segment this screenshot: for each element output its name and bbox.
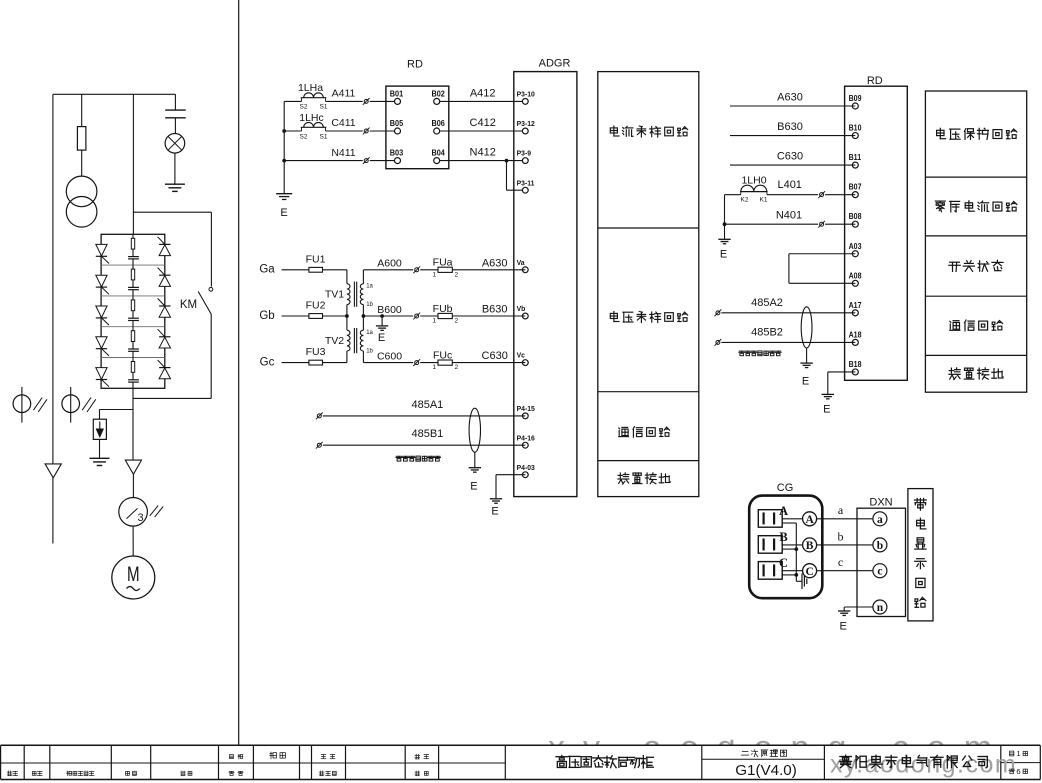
- svg-text:C411: C411: [331, 117, 355, 129]
- svg-text:485B1: 485B1: [411, 428, 443, 440]
- svg-text:E: E: [823, 404, 830, 416]
- svg-text:A630: A630: [482, 257, 508, 269]
- svg-text:E: E: [280, 207, 287, 219]
- svg-text:1: 1: [432, 271, 436, 278]
- svg-text:TV2: TV2: [325, 335, 344, 347]
- svg-text:485B2: 485B2: [751, 326, 783, 338]
- svg-text:Ga: Ga: [259, 264, 275, 276]
- svg-text:1a: 1a: [366, 284, 373, 290]
- svg-text:A630: A630: [777, 91, 803, 103]
- svg-text:A411: A411: [332, 88, 356, 100]
- svg-text:P3-11: P3-11: [517, 178, 535, 187]
- svg-text:P4-03: P4-03: [517, 462, 535, 471]
- svg-text:S2: S2: [300, 104, 308, 111]
- svg-text:K1: K1: [760, 197, 768, 204]
- svg-text:B11: B11: [849, 153, 861, 163]
- svg-text:Vb: Vb: [517, 304, 526, 313]
- svg-text:M: M: [127, 561, 140, 585]
- svg-text:E: E: [491, 506, 498, 518]
- svg-text:A08: A08: [849, 271, 862, 281]
- svg-text:ADGR: ADGR: [539, 57, 571, 69]
- svg-text:B08: B08: [849, 212, 862, 222]
- svg-text:E: E: [802, 376, 809, 388]
- svg-text:N401: N401: [776, 210, 802, 222]
- svg-text:B18: B18: [849, 360, 862, 370]
- svg-text:B: B: [779, 530, 787, 544]
- svg-text:C600: C600: [377, 350, 402, 362]
- svg-text:b: b: [877, 540, 883, 552]
- svg-text:A600: A600: [377, 258, 402, 270]
- svg-text:2: 2: [454, 364, 458, 371]
- svg-text:1a: 1a: [366, 330, 373, 336]
- svg-text:B07: B07: [849, 182, 862, 192]
- svg-text:N411: N411: [331, 147, 355, 159]
- svg-text:485A1: 485A1: [411, 399, 443, 411]
- svg-text:B02: B02: [432, 89, 446, 99]
- svg-text:E: E: [720, 249, 727, 261]
- svg-text:Gc: Gc: [260, 356, 275, 368]
- svg-text:B01: B01: [390, 89, 404, 99]
- svg-text:FU2: FU2: [306, 300, 326, 312]
- svg-text:a: a: [877, 514, 883, 526]
- svg-text:A412: A412: [470, 88, 496, 100]
- svg-text:n: n: [877, 602, 884, 614]
- svg-text:KM: KM: [180, 299, 197, 311]
- svg-text:P3-12: P3-12: [517, 119, 535, 128]
- svg-text:2: 2: [454, 271, 458, 278]
- svg-text:CG: CG: [777, 482, 794, 494]
- svg-text:1: 1: [1016, 749, 1020, 758]
- svg-text:DXN: DXN: [869, 497, 892, 509]
- svg-text:B630: B630: [777, 121, 803, 133]
- svg-text:G1(V4.0): G1(V4.0): [735, 762, 797, 779]
- svg-text:C: C: [779, 556, 788, 570]
- svg-text:B630: B630: [482, 304, 508, 316]
- svg-text:485A2: 485A2: [751, 297, 783, 309]
- svg-text:E: E: [378, 332, 385, 344]
- svg-text:C412: C412: [470, 117, 496, 129]
- svg-text:FU1: FU1: [306, 253, 326, 265]
- svg-text:A03: A03: [849, 241, 862, 251]
- svg-text:Vc: Vc: [517, 350, 525, 359]
- svg-text:E: E: [840, 621, 847, 633]
- svg-text:c: c: [838, 555, 843, 569]
- svg-text:A: A: [805, 514, 814, 526]
- svg-text:B04: B04: [432, 148, 446, 158]
- svg-text:c: c: [877, 566, 882, 578]
- svg-text:B06: B06: [432, 119, 446, 129]
- svg-text:1: 1: [432, 364, 436, 371]
- svg-text:1b: 1b: [366, 302, 373, 308]
- svg-text:C630: C630: [777, 151, 803, 163]
- svg-text:S1: S1: [320, 133, 328, 140]
- svg-text:P4-15: P4-15: [517, 404, 535, 413]
- svg-text:A18: A18: [849, 330, 862, 340]
- svg-text:P3-10: P3-10: [517, 89, 535, 98]
- svg-text:TV1: TV1: [325, 289, 344, 301]
- svg-text:3: 3: [137, 512, 143, 524]
- svg-text:1: 1: [432, 318, 436, 325]
- svg-text:B03: B03: [390, 148, 404, 158]
- svg-text:b: b: [838, 529, 844, 543]
- svg-text:B: B: [806, 540, 814, 552]
- svg-text:Va: Va: [517, 258, 526, 267]
- svg-text:FU3: FU3: [306, 346, 326, 358]
- svg-text:xy.aodong.com: xy.aodong.com: [830, 751, 1017, 779]
- svg-text:B09: B09: [849, 94, 862, 104]
- svg-text:B05: B05: [390, 119, 404, 129]
- svg-text:RD: RD: [407, 58, 423, 70]
- svg-text:B600: B600: [377, 304, 402, 316]
- svg-text:B10: B10: [849, 123, 862, 133]
- svg-text:P3-9: P3-9: [517, 148, 531, 157]
- svg-text:Gb: Gb: [259, 310, 274, 322]
- svg-text:1LH0: 1LH0: [741, 174, 766, 186]
- svg-text:L401: L401: [777, 179, 801, 191]
- svg-text:2: 2: [454, 318, 458, 325]
- svg-text:1LHc: 1LHc: [299, 112, 324, 124]
- svg-text:S1: S1: [320, 104, 328, 111]
- svg-text:C: C: [805, 566, 813, 578]
- svg-text:S2: S2: [300, 133, 308, 140]
- svg-text:P4-16: P4-16: [517, 433, 535, 442]
- svg-text:A: A: [779, 504, 788, 518]
- svg-text:1b: 1b: [366, 348, 373, 354]
- svg-text:K2: K2: [741, 197, 749, 204]
- svg-text:A17: A17: [849, 300, 862, 310]
- svg-text:a: a: [838, 503, 844, 517]
- svg-text:6: 6: [1016, 767, 1020, 776]
- svg-text:1LHa: 1LHa: [298, 82, 323, 94]
- svg-text:RD: RD: [867, 75, 883, 87]
- svg-text:C630: C630: [482, 350, 508, 362]
- svg-text:E: E: [470, 481, 477, 493]
- svg-text:N412: N412: [470, 147, 496, 159]
